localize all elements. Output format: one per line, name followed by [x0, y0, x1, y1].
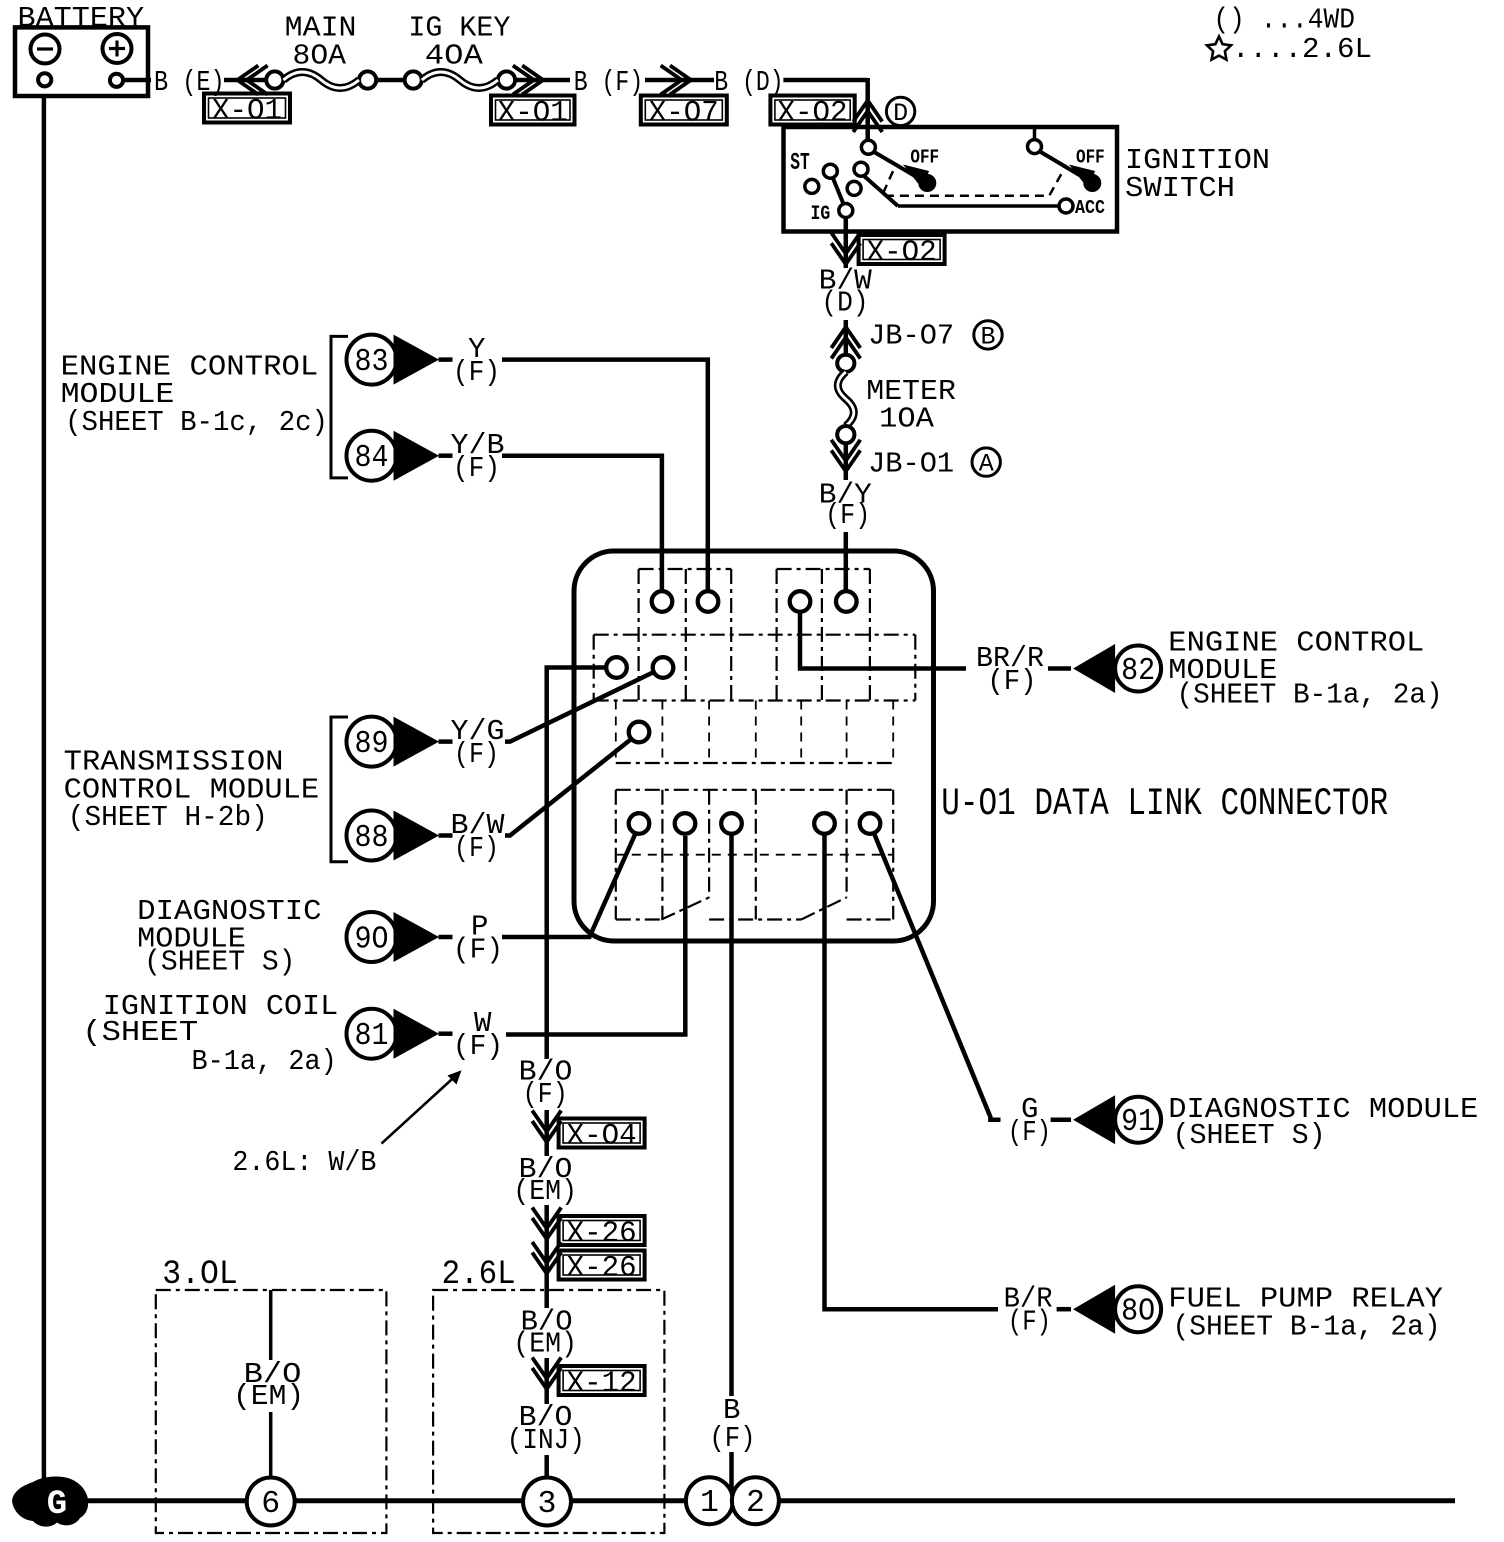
- svg-text:3: 3: [538, 1487, 557, 1522]
- svg-text:BATTERY: BATTERY: [18, 2, 145, 35]
- svg-text:X-O4: X-O4: [567, 1120, 637, 1154]
- svg-text:() ...4WD: () ...4WD: [1213, 4, 1355, 37]
- svg-text:(SHEET S): (SHEET S): [144, 946, 295, 979]
- svg-text:(F): (F): [453, 356, 500, 389]
- svg-text:G: G: [47, 1486, 67, 1524]
- svg-text:(SHEET B-1a, 2a): (SHEET B-1a, 2a): [1173, 1311, 1441, 1344]
- svg-text:(SHEET B-1a, 2a): (SHEET B-1a, 2a): [1177, 679, 1443, 712]
- svg-text:ACC: ACC: [1075, 197, 1105, 219]
- svg-text:(SHEET B-1c, 2c): (SHEET B-1c, 2c): [65, 406, 328, 439]
- svg-text:(EM): (EM): [513, 1328, 577, 1361]
- svg-text:X-12: X-12: [567, 1367, 637, 1401]
- svg-text:3.OL: 3.OL: [162, 1256, 237, 1294]
- svg-text:(F): (F): [453, 934, 503, 967]
- svg-text:2.6L: 2.6L: [442, 1256, 516, 1294]
- svg-text:(EM): (EM): [233, 1380, 304, 1413]
- svg-text:U-O1 DATA LINK CONNECTOR: U-O1 DATA LINK CONNECTOR: [941, 782, 1388, 826]
- svg-text:(F): (F): [454, 832, 499, 865]
- svg-text:9O: 9O: [355, 923, 389, 958]
- svg-text:(F): (F): [453, 1030, 503, 1063]
- svg-text:IG: IG: [811, 203, 831, 226]
- svg-text:8OA: 8OA: [293, 40, 347, 73]
- svg-text:88: 88: [355, 821, 389, 856]
- svg-text:(F): (F): [454, 738, 499, 771]
- svg-text:(F): (F): [453, 452, 500, 485]
- svg-text:(F): (F): [1008, 1306, 1051, 1339]
- svg-text:SWITCH: SWITCH: [1125, 172, 1235, 205]
- svg-text:1OA: 1OA: [879, 403, 934, 436]
- svg-text:X-O2: X-O2: [867, 236, 937, 270]
- svg-text:1: 1: [700, 1486, 719, 1521]
- svg-text:X-O1: X-O1: [498, 97, 568, 131]
- svg-text:X-26: X-26: [567, 1252, 637, 1286]
- svg-text:(SHEET H-2b): (SHEET H-2b): [68, 801, 268, 834]
- svg-text:4OA: 4OA: [425, 40, 484, 73]
- svg-text:....2.6L: ....2.6L: [1232, 33, 1372, 66]
- svg-text:(EM): (EM): [513, 1175, 577, 1208]
- svg-text:A: A: [979, 450, 994, 479]
- svg-text:(F): (F): [987, 665, 1036, 698]
- svg-text:81: 81: [355, 1019, 389, 1054]
- svg-text:2: 2: [746, 1486, 765, 1521]
- svg-text:(INJ): (INJ): [507, 1424, 585, 1457]
- svg-text:82: 82: [1121, 654, 1155, 689]
- svg-text:(F): (F): [1008, 1116, 1051, 1149]
- svg-text:(F): (F): [523, 1078, 568, 1111]
- svg-text:(SHEET: (SHEET: [82, 1016, 198, 1049]
- svg-text:(D): (D): [821, 287, 868, 320]
- svg-text:X-O1: X-O1: [212, 95, 282, 129]
- svg-text:D: D: [893, 99, 908, 128]
- svg-text:JB-O1: JB-O1: [868, 448, 954, 481]
- svg-text:8O: 8O: [1121, 1295, 1155, 1330]
- svg-text:OFF: OFF: [1076, 147, 1105, 169]
- svg-text:2.6L: W/B: 2.6L: W/B: [232, 1146, 376, 1179]
- svg-text:84: 84: [355, 441, 389, 476]
- svg-text:JB-O7: JB-O7: [868, 320, 954, 353]
- svg-text:ST: ST: [790, 150, 810, 177]
- svg-text:(F): (F): [709, 1422, 755, 1455]
- svg-text:B-1a, 2a): B-1a, 2a): [192, 1045, 337, 1078]
- svg-text:B: B: [980, 322, 995, 351]
- svg-text:89: 89: [355, 727, 389, 762]
- svg-text:X-O7: X-O7: [649, 97, 719, 131]
- svg-text:OFF: OFF: [910, 147, 939, 169]
- svg-text:83: 83: [355, 345, 389, 380]
- svg-text:X-26: X-26: [567, 1217, 637, 1251]
- svg-text:B (F): B (F): [574, 66, 643, 99]
- svg-text:(F): (F): [825, 499, 870, 532]
- svg-text:(SHEET S): (SHEET S): [1173, 1119, 1326, 1152]
- svg-text:6: 6: [261, 1487, 280, 1522]
- svg-text:91: 91: [1121, 1105, 1155, 1140]
